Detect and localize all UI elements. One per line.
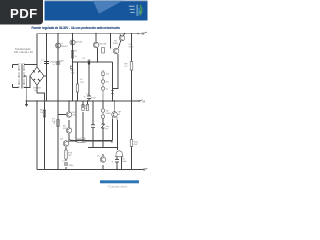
diode D3 — [101, 80, 104, 83]
wire: secondary center tap down — [24, 76, 26, 101]
transistor Q4 power — [119, 35, 125, 41]
wire: corner x112.5 down to mid rail — [112, 62, 114, 101]
PDF badge — [0, 0, 43, 25]
wire: top-left drop to bridge top vertex — [36, 34, 38, 67]
transistor Q11 dome — [115, 151, 123, 157]
ground symbol arrow — [25, 104, 28, 107]
wire: mid rail — [26, 100, 139, 102]
wire: rail x58 top to bottom — [57, 34, 59, 170]
wire: rail x131.5 top to bottom — [131, 34, 133, 62]
capacitor C1 — [44, 62, 49, 64]
label Q3 — [100, 44, 107, 46]
resistor R13 on x131.5 — [130, 140, 133, 147]
label R2 — [125, 64, 129, 69]
label R9b — [68, 153, 73, 158]
wire: below-mid rail x87.5 stub — [87, 101, 89, 104]
resistor R8 emitter — [77, 140, 85, 142]
svg-text:Fuente regulada de 30-30V - 3A: Fuente regulada de 30-30V - 3A con prote… — [32, 25, 121, 30]
svg-text:4148: 4148 — [106, 113, 112, 115]
transformer secondary coil — [23, 64, 25, 89]
svg-text:BD139: BD139 — [100, 44, 107, 46]
svg-text:©Copyright mikroe: ©Copyright mikroe — [108, 186, 129, 189]
wire: below-mid rail x76 — [75, 101, 77, 142]
wire: y140.5 horizontal — [70, 140, 113, 142]
capacitor C2 — [56, 62, 60, 64]
wire: power pair connections — [120, 34, 125, 36]
wire: bridge right vertex to rail — [44, 75, 47, 77]
diode D7 — [101, 115, 104, 118]
transistor Q7 — [66, 128, 72, 134]
label Q1 — [60, 44, 68, 49]
label Q8 — [118, 112, 122, 117]
preset on rail x103 — [102, 48, 105, 54]
wire: below-mid rail x69 — [68, 101, 70, 111]
wire: rail x46.5 top to mid — [46, 34, 48, 101]
svg-text:BD140: BD140 — [76, 42, 83, 44]
resistor R9 — [65, 150, 67, 159]
terminal output plus — [142, 32, 146, 34]
svg-text:PDF: PDF — [10, 6, 38, 21]
svg-text:47uF: 47uF — [91, 98, 97, 100]
svg-text:+: + — [146, 30, 148, 34]
resistor R2 — [130, 62, 133, 71]
bridge rectifier diamond — [30, 67, 44, 85]
wire: Q6 base stub — [58, 114, 66, 116]
wire: x96 from top rail to transistor — [95, 34, 97, 42]
transistor Q10 — [100, 157, 106, 163]
capacitor C7 — [64, 163, 68, 165]
bridge diode marks — [33, 71, 40, 82]
header light blue diagonal wedge — [93, 1, 123, 14]
wire: rail x37 mid to bottom — [36, 101, 38, 170]
zener D8 — [101, 118, 104, 133]
transistor Q9 — [63, 141, 69, 147]
wire: horizontal bus y62 — [73, 61, 113, 63]
wire: x110.4 from top rail to Q5 — [109, 34, 111, 49]
wire: bottom rail — [37, 169, 144, 171]
transistor Q8 — [112, 112, 118, 118]
wire: rail x72.5 top to mid — [72, 34, 74, 101]
label Q2 — [75, 42, 83, 59]
wire: secondary bottom to bridge — [24, 76, 30, 88]
wire: rail x77.5 down to mid — [77, 62, 79, 84]
wire: primary stubs — [13, 64, 19, 66]
label C5 — [122, 159, 128, 164]
resistor R6b — [86, 104, 88, 110]
diode D6 — [101, 109, 104, 112]
transistor Q5 power — [113, 48, 119, 54]
label bridge — [33, 88, 41, 93]
header logo emblem — [137, 5, 143, 17]
wire: rail x89 bus to mid — [88, 62, 90, 96]
label transformer — [14, 48, 33, 54]
resistor R1 — [71, 51, 73, 59]
label P1 — [52, 119, 56, 124]
capacitor C3 series marks on bus — [88, 60, 90, 65]
svg-text:-: - — [147, 166, 148, 170]
header light top edge — [45, 0, 148, 1]
resistor R4 — [76, 84, 78, 92]
label C3 — [82, 58, 86, 60]
schematic — [13, 34, 144, 170]
transformer primary coil — [18, 64, 20, 89]
svg-text:100n: 100n — [59, 61, 65, 63]
label Q10 — [97, 156, 100, 158]
header small white caption lines — [129, 6, 135, 13]
transformer core — [20, 64, 22, 89]
header separator line — [136, 5, 139, 17]
label R5 — [40, 110, 44, 115]
wire: Q8 leads — [113, 101, 118, 120]
ground symbol stem — [26, 101, 28, 104]
junction dots — [26, 33, 139, 170]
svg-text:3055: 3055 — [113, 43, 119, 45]
terminal output minus — [143, 168, 147, 170]
svg-text:100u: 100u — [122, 161, 128, 163]
label R8 — [78, 138, 87, 140]
label R6b — [85, 106, 90, 111]
footer blue bar — [100, 180, 139, 183]
transistor Q2 — [70, 40, 75, 45]
transistor Q1 — [55, 43, 60, 48]
wire: below-mid rail x103 — [102, 101, 104, 108]
transistor Q3 — [93, 42, 99, 48]
wire: x97.5 transistor emitter down to bus — [97, 48, 99, 62]
transistor Q6 — [66, 112, 72, 118]
label middle resistors — [71, 70, 110, 91]
wire: x103 top — [102, 70, 104, 72]
label C7 — [62, 161, 74, 168]
wire: below-mid rail x83 — [82, 101, 84, 108]
svg-text:BD: BD — [70, 140, 73, 142]
transistor Q2b — [71, 62, 74, 77]
wire: y147.5 horizontal — [88, 147, 118, 149]
wire: Q8 emitter down — [112, 119, 114, 141]
svg-text:4700uF: 4700uF — [50, 62, 58, 64]
wire: secondary top to bridge — [24, 65, 37, 68]
diode D4 — [101, 87, 104, 90]
capacitor C8 on x93 — [91, 125, 95, 128]
wire: x103 bottom comp — [102, 154, 104, 156]
label C1 — [41, 60, 58, 64]
label Q6 Q7 — [63, 112, 77, 130]
trimmer P1 — [54, 120, 60, 127]
wire: diode links — [102, 108, 104, 115]
label power pair — [113, 41, 134, 49]
wire: top positive rail — [37, 33, 142, 35]
label Q9 — [60, 139, 73, 142]
label C4 — [86, 94, 97, 100]
resistor R6 — [82, 105, 84, 111]
svg-text:12V: 12V — [80, 82, 84, 84]
wire: bridge bottom to mid rail jog — [37, 85, 45, 101]
wire: bottom-left transistor branch — [65, 147, 67, 150]
terminal output mid — [139, 100, 143, 102]
resistor ladder R3 — [102, 72, 104, 75]
wire: emitter resistor to right — [70, 140, 77, 142]
svg-text:220 v-24+24 v 3A: 220 v-24+24 v 3A — [14, 51, 33, 54]
header blue banner — [45, 1, 148, 21]
resistor R5 — [43, 110, 45, 117]
svg-text:0.47 5W: 0.47 5W — [78, 138, 87, 140]
wire: Q8 base column down to dome — [117, 120, 119, 150]
label diodes — [106, 111, 112, 131]
svg-text:100n: 100n — [69, 165, 75, 167]
capacitor C4 — [87, 96, 91, 99]
capacitor C6 — [115, 160, 119, 163]
wire: x103 ladder — [102, 75, 104, 101]
svg-text:3055: 3055 — [129, 47, 135, 49]
wire: below-mid rail x93 — [92, 101, 94, 125]
label R7 — [134, 142, 139, 147]
svg-text:1N4007: 1N4007 — [60, 46, 68, 48]
page background — [0, 0, 149, 198]
wire: rail x44.5 mid to bottom — [44, 101, 46, 170]
